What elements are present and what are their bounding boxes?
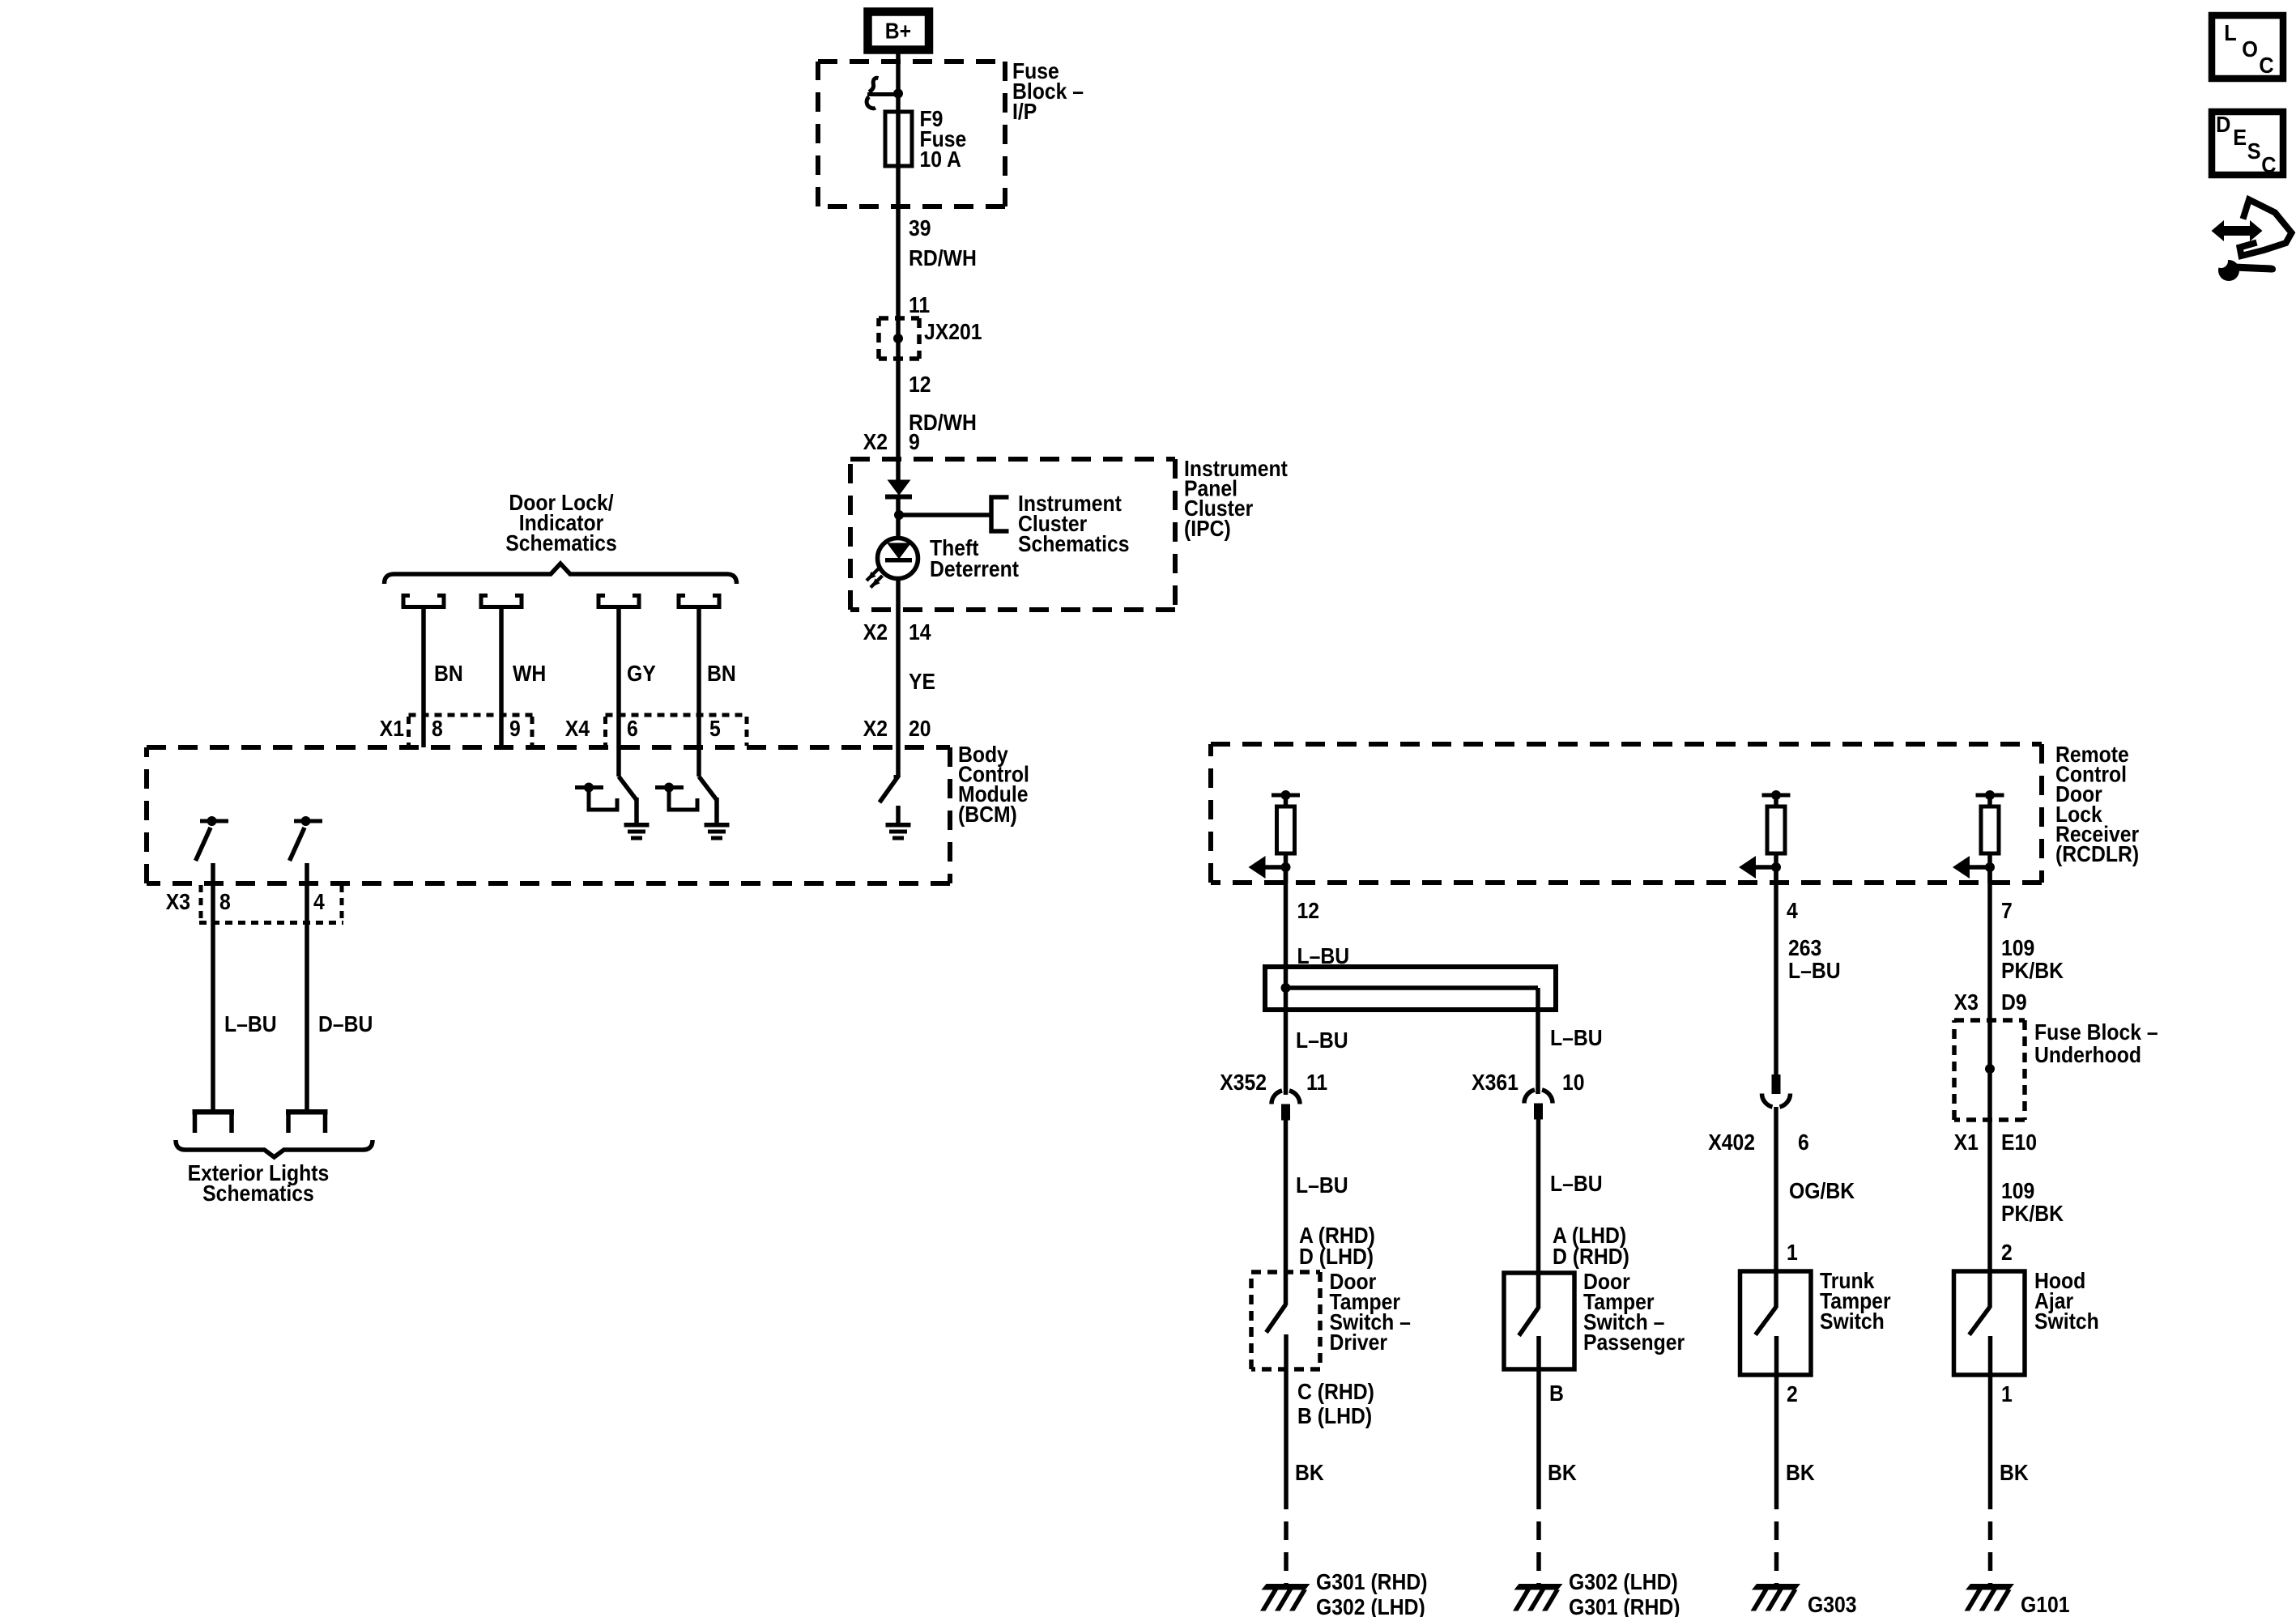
- svg-text:X352: X352: [1220, 1070, 1267, 1096]
- svg-text:C: C: [2261, 152, 2276, 177]
- ground G303: [1751, 1584, 1801, 1611]
- svg-text:9: 9: [509, 716, 521, 742]
- connector stub 3 (door lock/indicator): [598, 594, 639, 609]
- svg-text:(BCM): (BCM): [958, 802, 1017, 828]
- trunk tamper switch box: [1740, 1271, 1812, 1375]
- svg-text:D: D: [2216, 112, 2230, 137]
- connector stub 1 (door lock/indicator): [403, 594, 444, 609]
- svg-text:E: E: [2233, 125, 2247, 150]
- switch BCM driver (X4-5): [655, 777, 717, 823]
- svg-text:YE: YE: [909, 669, 935, 695]
- pin labels X1 8 9 X4 6 5: [380, 716, 721, 742]
- wire: RCDLR 4 to X402: [1774, 867, 1778, 1074]
- switch BCM driver (X3-8): [196, 816, 229, 861]
- hood ajar switch box: [1954, 1271, 2026, 1375]
- svg-text:39: 39: [909, 215, 931, 241]
- svg-text:G301 (RHD): G301 (RHD): [1316, 1569, 1428, 1595]
- svg-text:10 A: 10 A: [920, 147, 961, 172]
- connector stub (exterior lights, right): [286, 1109, 328, 1133]
- svg-text:L–BU: L–BU: [1550, 1025, 1603, 1051]
- svg-text:JX201: JX201: [924, 319, 982, 345]
- wire: LED to BCM pin 20: [896, 578, 901, 777]
- svg-text:5: 5: [709, 716, 721, 742]
- svg-text:14: 14: [909, 619, 931, 645]
- svg-text:109: 109: [2001, 1178, 2034, 1204]
- brace to Door Lock/Indicator Schematics: [385, 564, 737, 584]
- svg-text:D (RHD): D (RHD): [1553, 1244, 1629, 1270]
- svg-text:WH: WH: [513, 661, 546, 687]
- svg-text:O: O: [2242, 36, 2258, 62]
- fuse clip contact: [867, 78, 903, 109]
- legend box LOC: [2212, 15, 2283, 79]
- wire dashed lead to G301: [1284, 1521, 1289, 1586]
- wire dashed lead to G302: [1536, 1521, 1541, 1586]
- svg-text:BK: BK: [1295, 1460, 1324, 1486]
- svg-text:B+: B+: [885, 18, 911, 44]
- wire BN to BCM X1-8: [421, 609, 426, 747]
- ground (BCM internal, X4-5): [705, 823, 730, 840]
- label G301: [1316, 1569, 1428, 1617]
- svg-text:L–BU: L–BU: [1550, 1171, 1603, 1197]
- wire: X402 to trunk switch: [1774, 1107, 1778, 1308]
- svg-text:1: 1: [1787, 1240, 1798, 1266]
- fuse F9 10A: [885, 106, 966, 172]
- svg-text:109: 109: [2001, 935, 2034, 961]
- connector X402 pin 6: [1708, 1074, 1809, 1155]
- svg-text:Underhood: Underhood: [2034, 1042, 2141, 1068]
- svg-text:OG/BK: OG/BK: [1789, 1178, 1855, 1204]
- svg-text:11: 11: [1306, 1070, 1327, 1096]
- node and arrow (RCDLR driver input): [1249, 856, 1291, 879]
- svg-text:(RCDLR): (RCDLR): [2055, 841, 2139, 867]
- connector stub 4 (door lock/indicator): [679, 594, 719, 609]
- svg-text:Fuse Block –: Fuse Block –: [2034, 1019, 2158, 1045]
- resistor (RCDLR hood input): [1976, 790, 2004, 883]
- diode (wire entry): [885, 480, 912, 500]
- pin X2 9: [863, 429, 920, 455]
- label Theft Deterrent: [930, 535, 1019, 582]
- svg-text:C: C: [2259, 53, 2273, 78]
- svg-text:X3: X3: [166, 889, 190, 915]
- svg-text:I/P: I/P: [1012, 99, 1037, 125]
- svg-text:X1: X1: [1954, 1130, 1979, 1155]
- svg-text:BN: BN: [434, 661, 463, 687]
- svg-text:263: 263: [1788, 935, 1821, 961]
- svg-text:12: 12: [909, 372, 931, 398]
- resistor (RCDLR driver input): [1272, 790, 1300, 883]
- svg-text:X3: X3: [1954, 989, 1979, 1015]
- label Trunk Tamper Switch: [1820, 1268, 1891, 1334]
- svg-text:B: B: [1549, 1381, 1564, 1406]
- svg-text:B (LHD): B (LHD): [1297, 1403, 1372, 1429]
- pin labels A (RHD) D (LHD): [1299, 1223, 1375, 1270]
- svg-text:4: 4: [1787, 898, 1798, 924]
- svg-text:C (RHD): C (RHD): [1297, 1379, 1374, 1405]
- switch BCM driver (X2-20): [880, 776, 899, 823]
- splice block: [1265, 967, 1556, 1010]
- label Instrument Panel Cluster (IPC): [1184, 456, 1288, 541]
- svg-text:Schematics: Schematics: [202, 1181, 314, 1206]
- svg-text:G302 (LHD): G302 (LHD): [1316, 1594, 1425, 1617]
- svg-text:X361: X361: [1472, 1070, 1519, 1096]
- label G303: [1808, 1592, 1857, 1617]
- wire label 109 PK/BK (2): [2001, 1178, 2064, 1227]
- wire label 263 L-BU: [1788, 935, 1841, 984]
- connector stub 2 (door lock/indicator): [481, 594, 522, 609]
- wire: junction to bracket: [899, 513, 991, 517]
- svg-text:X2: X2: [863, 716, 888, 742]
- svg-text:GY: GY: [627, 661, 656, 687]
- svg-text:7: 7: [2001, 898, 2013, 924]
- resistor (RCDLR trunk input): [1762, 790, 1791, 883]
- door tamper switch driver (dashed box): [1251, 1272, 1320, 1369]
- wire dashed lead to G303: [1774, 1521, 1779, 1586]
- switch blade (passenger): [1519, 1308, 1540, 1509]
- svg-text:E10: E10: [2001, 1130, 2037, 1155]
- wire: diode to LED: [896, 499, 901, 538]
- label G302: [1569, 1569, 1680, 1617]
- pin labels A (LHD) D (RHD): [1553, 1223, 1629, 1270]
- label Door Tamper Switch - Passenger: [1583, 1269, 1685, 1355]
- legend icon: double arrow with door outline and wrench: [2212, 200, 2292, 282]
- svg-text:4: 4: [313, 889, 325, 915]
- svg-text:Deterrent: Deterrent: [930, 556, 1019, 582]
- pin X2 14: [863, 619, 931, 645]
- wire: X352 to driver switch: [1284, 1121, 1289, 1306]
- label Instrument Cluster Schematics: [1018, 491, 1130, 557]
- svg-text:1: 1: [2001, 1381, 2013, 1407]
- svg-text:X2: X2: [863, 429, 888, 455]
- svg-text:BK: BK: [1548, 1460, 1577, 1486]
- label Hood Ajar Switch: [2034, 1268, 2099, 1334]
- switch blade (trunk): [1756, 1307, 1777, 1509]
- svg-text:L–BU: L–BU: [1296, 1028, 1348, 1053]
- body control module BCM dashed box: [147, 747, 950, 883]
- label Fuse Block - Underhood: [2034, 1019, 2158, 1068]
- svg-text:10: 10: [1562, 1070, 1585, 1096]
- svg-text:Driver: Driver: [1330, 1330, 1388, 1355]
- pin X1 E10: [1954, 1130, 2037, 1155]
- svg-text:Schematics: Schematics: [505, 530, 617, 556]
- connector stub (exterior lights, left): [193, 1109, 235, 1133]
- wire GY to BCM X4-6: [616, 609, 621, 777]
- svg-text:2: 2: [2001, 1240, 2013, 1266]
- svg-text:PK/BK: PK/BK: [2001, 1201, 2064, 1227]
- wire labels L-BU D-BU: [224, 1011, 373, 1037]
- pin X2 20: [863, 716, 931, 742]
- svg-text:X4: X4: [565, 716, 590, 742]
- fuse block underhood dashed box: [1954, 1020, 2025, 1120]
- svg-text:Schematics: Schematics: [1018, 531, 1130, 557]
- wire BN to BCM X4-5: [696, 609, 701, 777]
- ground G301: [1260, 1584, 1310, 1611]
- svg-text:G301 (RHD): G301 (RHD): [1569, 1594, 1680, 1617]
- wire L-BU to exterior lights: [211, 863, 215, 1110]
- svg-text:20: 20: [909, 716, 931, 742]
- wire dashed lead to G101: [1988, 1521, 1993, 1586]
- svg-text:X1: X1: [380, 716, 404, 742]
- svg-text:Switch: Switch: [2034, 1308, 2099, 1334]
- svg-text:L–BU: L–BU: [224, 1011, 277, 1037]
- svg-text:G303: G303: [1808, 1592, 1857, 1617]
- switch blade (hood): [1970, 1307, 1991, 1509]
- wire label 12 RD/WH: [909, 372, 977, 436]
- svg-text:BK: BK: [2000, 1460, 2029, 1486]
- wire: splice to X361: [1536, 988, 1540, 1094]
- svg-text:X2: X2: [863, 619, 888, 645]
- label Remote Control Door Lock Receiver (RCDLR): [2055, 742, 2139, 867]
- svg-text:L: L: [2224, 20, 2236, 45]
- fuse block I/P dashed box: [818, 62, 1005, 206]
- power feed B+: [868, 12, 930, 50]
- connector X361 pin 10: [1472, 1070, 1584, 1120]
- svg-text:8: 8: [219, 889, 231, 915]
- switch blade (driver): [1267, 1304, 1287, 1509]
- svg-text:D (LHD): D (LHD): [1299, 1244, 1374, 1270]
- off-page bracket to Instrument Cluster Schematics: [991, 497, 1009, 531]
- pin labels C (RHD) B (LHD): [1297, 1379, 1374, 1429]
- wire: X361 to passenger switch: [1536, 1120, 1541, 1309]
- svg-text:9: 9: [909, 429, 920, 455]
- svg-text:X402: X402: [1708, 1130, 1755, 1155]
- svg-text:(IPC): (IPC): [1184, 516, 1231, 542]
- svg-text:BN: BN: [707, 661, 736, 687]
- svg-text:L–BU: L–BU: [1296, 1172, 1348, 1198]
- svg-text:8: 8: [432, 716, 443, 742]
- ground G101: [1965, 1584, 2015, 1611]
- svg-text:BK: BK: [1786, 1460, 1815, 1486]
- label Door Tamper Switch - Driver: [1330, 1269, 1411, 1355]
- wire labels BN WH GY BN: [434, 661, 736, 687]
- wire WH to BCM X1-9: [499, 609, 504, 747]
- connector strip X3 pin row: [199, 885, 343, 923]
- legend box DESC: [2212, 112, 2283, 177]
- label Door Lock/Indicator Schematics: [505, 490, 617, 556]
- ground (BCM internal, X4-6): [624, 823, 650, 840]
- connector X352 pin 11: [1220, 1070, 1327, 1121]
- wire label 39 RD/WH: [909, 215, 977, 271]
- brace to Exterior Lights Schematics: [176, 1140, 373, 1157]
- node: junction to IC schematics: [894, 510, 904, 520]
- ground (BCM internal, X2-20): [886, 823, 911, 840]
- svg-text:D–BU: D–BU: [318, 1011, 373, 1037]
- svg-text:S: S: [2247, 138, 2261, 164]
- door tamper switch passenger (solid box): [1504, 1273, 1574, 1369]
- svg-text:2: 2: [1787, 1381, 1798, 1407]
- instrument panel cluster IPC dashed box: [850, 459, 1175, 610]
- svg-text:12: 12: [1297, 898, 1319, 924]
- svg-text:11: 11: [909, 292, 930, 318]
- svg-text:Passenger: Passenger: [1583, 1330, 1685, 1355]
- label G101: [2021, 1592, 2070, 1617]
- wire label 109 PK/BK: [2001, 935, 2064, 984]
- connector strip X1/X4 pin row: [409, 715, 748, 746]
- pin labels X3 8 4: [166, 889, 325, 915]
- wire: RCDLR 7 to hood switch: [1987, 867, 1992, 1308]
- svg-text:G101: G101: [2021, 1592, 2070, 1617]
- svg-text:D9: D9: [2001, 989, 2027, 1015]
- svg-text:6: 6: [627, 716, 638, 742]
- node and arrow (RCDLR trunk input): [1739, 856, 1781, 879]
- LED theft deterrent indicator: [867, 538, 918, 588]
- remote control door lock receiver RCDLR dashed box: [1211, 744, 2042, 883]
- wire: RCDLR 12 to splice: [1284, 867, 1289, 1095]
- svg-text:Switch: Switch: [1820, 1308, 1885, 1334]
- pin X3 D9: [1954, 989, 2027, 1015]
- svg-text:G302 (LHD): G302 (LHD): [1569, 1569, 1678, 1595]
- svg-text:RD/WH: RD/WH: [909, 245, 977, 271]
- svg-text:L–BU: L–BU: [1788, 958, 1841, 984]
- junction JX201: [879, 292, 982, 359]
- switch BCM driver (X3-4): [290, 816, 323, 861]
- svg-text:6: 6: [1798, 1130, 1809, 1155]
- node in fuse block underhood: [1985, 1064, 1995, 1074]
- ground G302: [1513, 1584, 1563, 1611]
- label Body Control Module (BCM): [958, 742, 1029, 827]
- svg-text:PK/BK: PK/BK: [2001, 958, 2064, 984]
- switch BCM driver (X4-6): [575, 777, 637, 823]
- wire: B+ to IPC pin 9: [896, 53, 901, 481]
- label Exterior Lights Schematics: [188, 1160, 330, 1206]
- wire D-BU to exterior lights: [305, 863, 309, 1110]
- node and arrow (RCDLR hood input): [1953, 856, 1995, 879]
- label Fuse Block - I/P: [1012, 58, 1084, 125]
